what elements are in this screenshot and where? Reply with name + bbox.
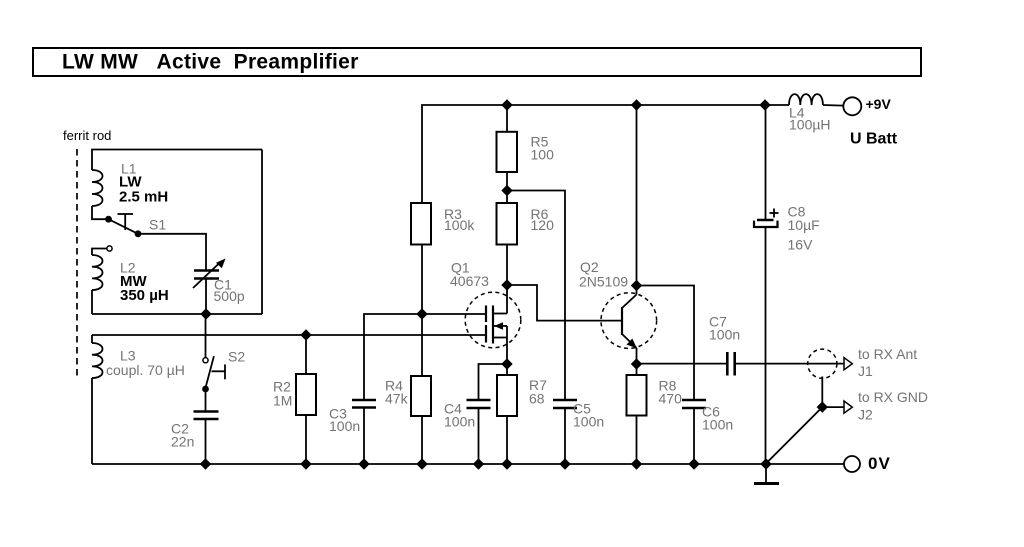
svg-text:470: 470 xyxy=(659,391,683,407)
value 500p xyxy=(214,288,245,304)
resistor R6 xyxy=(497,191,518,286)
svg-text:68: 68 xyxy=(529,391,545,407)
label C3 xyxy=(329,406,347,422)
title box xyxy=(33,48,921,76)
label Q1 xyxy=(451,260,470,276)
label R4 xyxy=(385,378,403,394)
wire tuned-circuit loop bottom edge xyxy=(92,313,262,315)
label J2 xyxy=(858,407,873,423)
svg-text:100n: 100n xyxy=(702,417,733,433)
svg-text:+9V: +9V xyxy=(866,96,892,112)
node rail/C4 xyxy=(473,458,484,469)
svg-text:47k: 47k xyxy=(385,391,409,407)
value 68 xyxy=(529,391,545,407)
svg-text:350 µH: 350 µH xyxy=(120,287,169,304)
value 100n xyxy=(444,414,475,430)
terminal 0V xyxy=(844,456,860,472)
ferrit rod label xyxy=(63,128,111,143)
label R5 xyxy=(531,134,549,150)
svg-text:100µH: 100µH xyxy=(789,117,831,133)
connector J2 xyxy=(822,401,852,413)
node Q1 source junction xyxy=(501,358,512,369)
capacitor C8 (electrolytic) xyxy=(754,105,779,464)
wire tuned-circuit loop top edge xyxy=(92,150,262,171)
svg-text:1M: 1M xyxy=(273,393,292,409)
value 100uH xyxy=(789,117,831,133)
svg-text:J2: J2 xyxy=(858,407,873,423)
capacitor C2 xyxy=(194,389,219,464)
node rail/C3 xyxy=(358,458,369,469)
switch S2 xyxy=(202,356,225,392)
node rail/C6 xyxy=(688,458,699,469)
wire gate2 line xyxy=(92,334,486,336)
value 16V xyxy=(788,237,814,253)
value 22n xyxy=(171,434,194,450)
wire tuned-circuit loop right edge xyxy=(261,150,263,315)
svg-text:to RX Ant: to RX Ant xyxy=(858,346,917,362)
wire C1 node down to S2 xyxy=(205,314,207,358)
wire top supply rail xyxy=(422,105,765,203)
value 10uF xyxy=(788,217,820,233)
label C4 xyxy=(444,401,462,417)
resistor R8 xyxy=(627,364,647,464)
wire gate1 line xyxy=(364,314,486,400)
wire J2 to ground rail (diagonal) xyxy=(766,407,822,463)
resistor R4 xyxy=(411,314,431,464)
label 0V xyxy=(868,454,891,473)
node Q2 collector junction xyxy=(631,280,642,291)
label U Batt xyxy=(850,131,898,148)
label R7 xyxy=(529,377,547,393)
wire emitter to C7 xyxy=(637,363,728,365)
svg-text:LW MW Active Preamplifier: LW MW Active Preamplifier xyxy=(62,51,359,74)
wire source to C4 xyxy=(479,364,508,400)
capacitor C4 xyxy=(467,400,491,464)
value 100k xyxy=(444,217,475,233)
label C8 xyxy=(788,204,806,220)
capacitor C5 xyxy=(553,400,577,464)
node Q1 drain junction xyxy=(501,279,512,290)
value MW xyxy=(120,273,147,290)
svg-text:S2: S2 xyxy=(228,349,245,365)
inductor L4 xyxy=(789,94,844,105)
svg-text:10µF: 10µF xyxy=(788,217,820,233)
value 47k xyxy=(385,391,409,407)
resistor R2 xyxy=(296,335,316,464)
node C1/bottom junction xyxy=(200,308,211,319)
variable capacitor C1 xyxy=(193,259,226,315)
value LW xyxy=(119,174,142,191)
label R6 xyxy=(531,206,549,222)
ferrite rod core (dashed) xyxy=(76,149,78,378)
value 100n xyxy=(709,327,740,343)
wire collector to C6 xyxy=(637,286,695,401)
value 350 uH xyxy=(120,287,169,304)
terminal +9V battery xyxy=(843,97,861,115)
svg-text:J1: J1 xyxy=(858,363,873,379)
value 2N5109 xyxy=(579,274,628,290)
transistor Q2 (2N5109) xyxy=(601,286,657,365)
svg-text:ferrit rod: ferrit rod xyxy=(63,128,111,143)
node J2 junction xyxy=(817,401,828,412)
svg-text:coupl. 70 µH: coupl. 70 µH xyxy=(106,362,185,378)
svg-text:U Batt: U Batt xyxy=(850,131,898,148)
svg-text:100n: 100n xyxy=(329,418,360,434)
resistor R3 xyxy=(411,203,431,314)
label L1 xyxy=(121,161,137,177)
svg-text:2N5109: 2N5109 xyxy=(579,274,628,290)
label C7 xyxy=(709,314,727,330)
node rail/ground xyxy=(760,458,771,469)
connector J1 (dashed circle) xyxy=(808,349,853,378)
node rail/R5 xyxy=(501,99,512,110)
inductor L2 xyxy=(92,246,112,314)
capacitor C3 xyxy=(352,400,376,464)
label C2 xyxy=(171,421,189,437)
svg-text:40673: 40673 xyxy=(450,273,489,289)
value coupl. 70 uH xyxy=(106,362,185,378)
label R3 xyxy=(444,206,462,222)
value 100 xyxy=(531,147,555,163)
value 2.5 mH xyxy=(119,189,168,206)
label C5 xyxy=(573,401,591,417)
label to RX Ant xyxy=(858,346,917,362)
label to RX GND xyxy=(858,389,928,405)
node rail/R7 xyxy=(501,458,512,469)
wire C7 to J1 xyxy=(735,363,844,365)
wire Q2 collector to rail xyxy=(636,105,638,286)
svg-text:0V: 0V xyxy=(868,454,891,473)
inductor L1 xyxy=(92,170,103,206)
label L2 xyxy=(120,260,136,276)
svg-text:100n: 100n xyxy=(709,327,740,343)
wire junction to C5 xyxy=(507,191,565,401)
wire bottom ground rail xyxy=(92,463,844,465)
label C6 xyxy=(702,404,720,420)
svg-text:100n: 100n xyxy=(573,414,604,430)
label L4 xyxy=(789,105,805,121)
node R5/R6 junction xyxy=(501,185,512,196)
node rail/Q2 xyxy=(631,99,642,110)
value 1M xyxy=(273,393,292,409)
label R8 xyxy=(659,378,677,394)
svg-text:2.5 mH: 2.5 mH xyxy=(119,189,168,206)
label S2 xyxy=(228,349,245,365)
wire L1 bottom to switch contact xyxy=(92,206,109,219)
node rail/C2 xyxy=(200,458,211,469)
wire left edge to L3 xyxy=(91,335,93,343)
value 120 xyxy=(531,217,555,233)
wire Q1 drain to Q2 base xyxy=(507,285,622,321)
wire rail to L4 xyxy=(765,104,789,106)
capacitor C6 xyxy=(682,400,706,464)
ground xyxy=(754,464,779,484)
svg-text:22n: 22n xyxy=(171,434,194,450)
resistor R5 xyxy=(497,105,518,191)
node rail/R8 xyxy=(631,458,642,469)
wire S1 to C1 xyxy=(138,234,206,270)
capacitor C7 xyxy=(727,352,734,376)
node rail/C5 xyxy=(559,458,570,469)
inductor L3 xyxy=(92,343,103,378)
label L3 xyxy=(120,348,136,364)
label C1 xyxy=(214,277,232,293)
node R2 top junction xyxy=(300,329,311,340)
value 100n xyxy=(702,417,733,433)
wire J1 to J2 xyxy=(821,377,823,408)
label Q2 xyxy=(580,259,599,275)
node rail/L4/C8 xyxy=(759,99,770,110)
node rail/R4 xyxy=(416,458,427,469)
svg-text:to RX GND: to RX GND xyxy=(858,389,928,405)
label +9V xyxy=(866,96,892,112)
label S1 xyxy=(149,217,166,233)
value 40673 xyxy=(450,273,489,289)
svg-text:S1: S1 xyxy=(149,217,166,233)
transistor Q1 (dual-gate MOSFET 40673) xyxy=(465,285,521,364)
node gate1 junction xyxy=(416,308,427,319)
value 100n xyxy=(329,418,360,434)
node Q2 emitter junction xyxy=(631,358,642,369)
node rail/R2 xyxy=(300,458,311,469)
switch S1 xyxy=(105,214,141,237)
value 100n xyxy=(573,414,604,430)
svg-text:100: 100 xyxy=(531,147,555,163)
svg-text:100n: 100n xyxy=(444,414,475,430)
label J1 xyxy=(858,363,873,379)
wire L3 to ground rail xyxy=(91,378,93,464)
value 470 xyxy=(659,391,683,407)
svg-text:500p: 500p xyxy=(214,288,245,304)
label R2 xyxy=(273,379,291,395)
resistor R7 xyxy=(497,364,517,464)
svg-text:120: 120 xyxy=(531,217,555,233)
svg-text:100k: 100k xyxy=(444,217,475,233)
svg-text:16V: 16V xyxy=(788,237,814,253)
